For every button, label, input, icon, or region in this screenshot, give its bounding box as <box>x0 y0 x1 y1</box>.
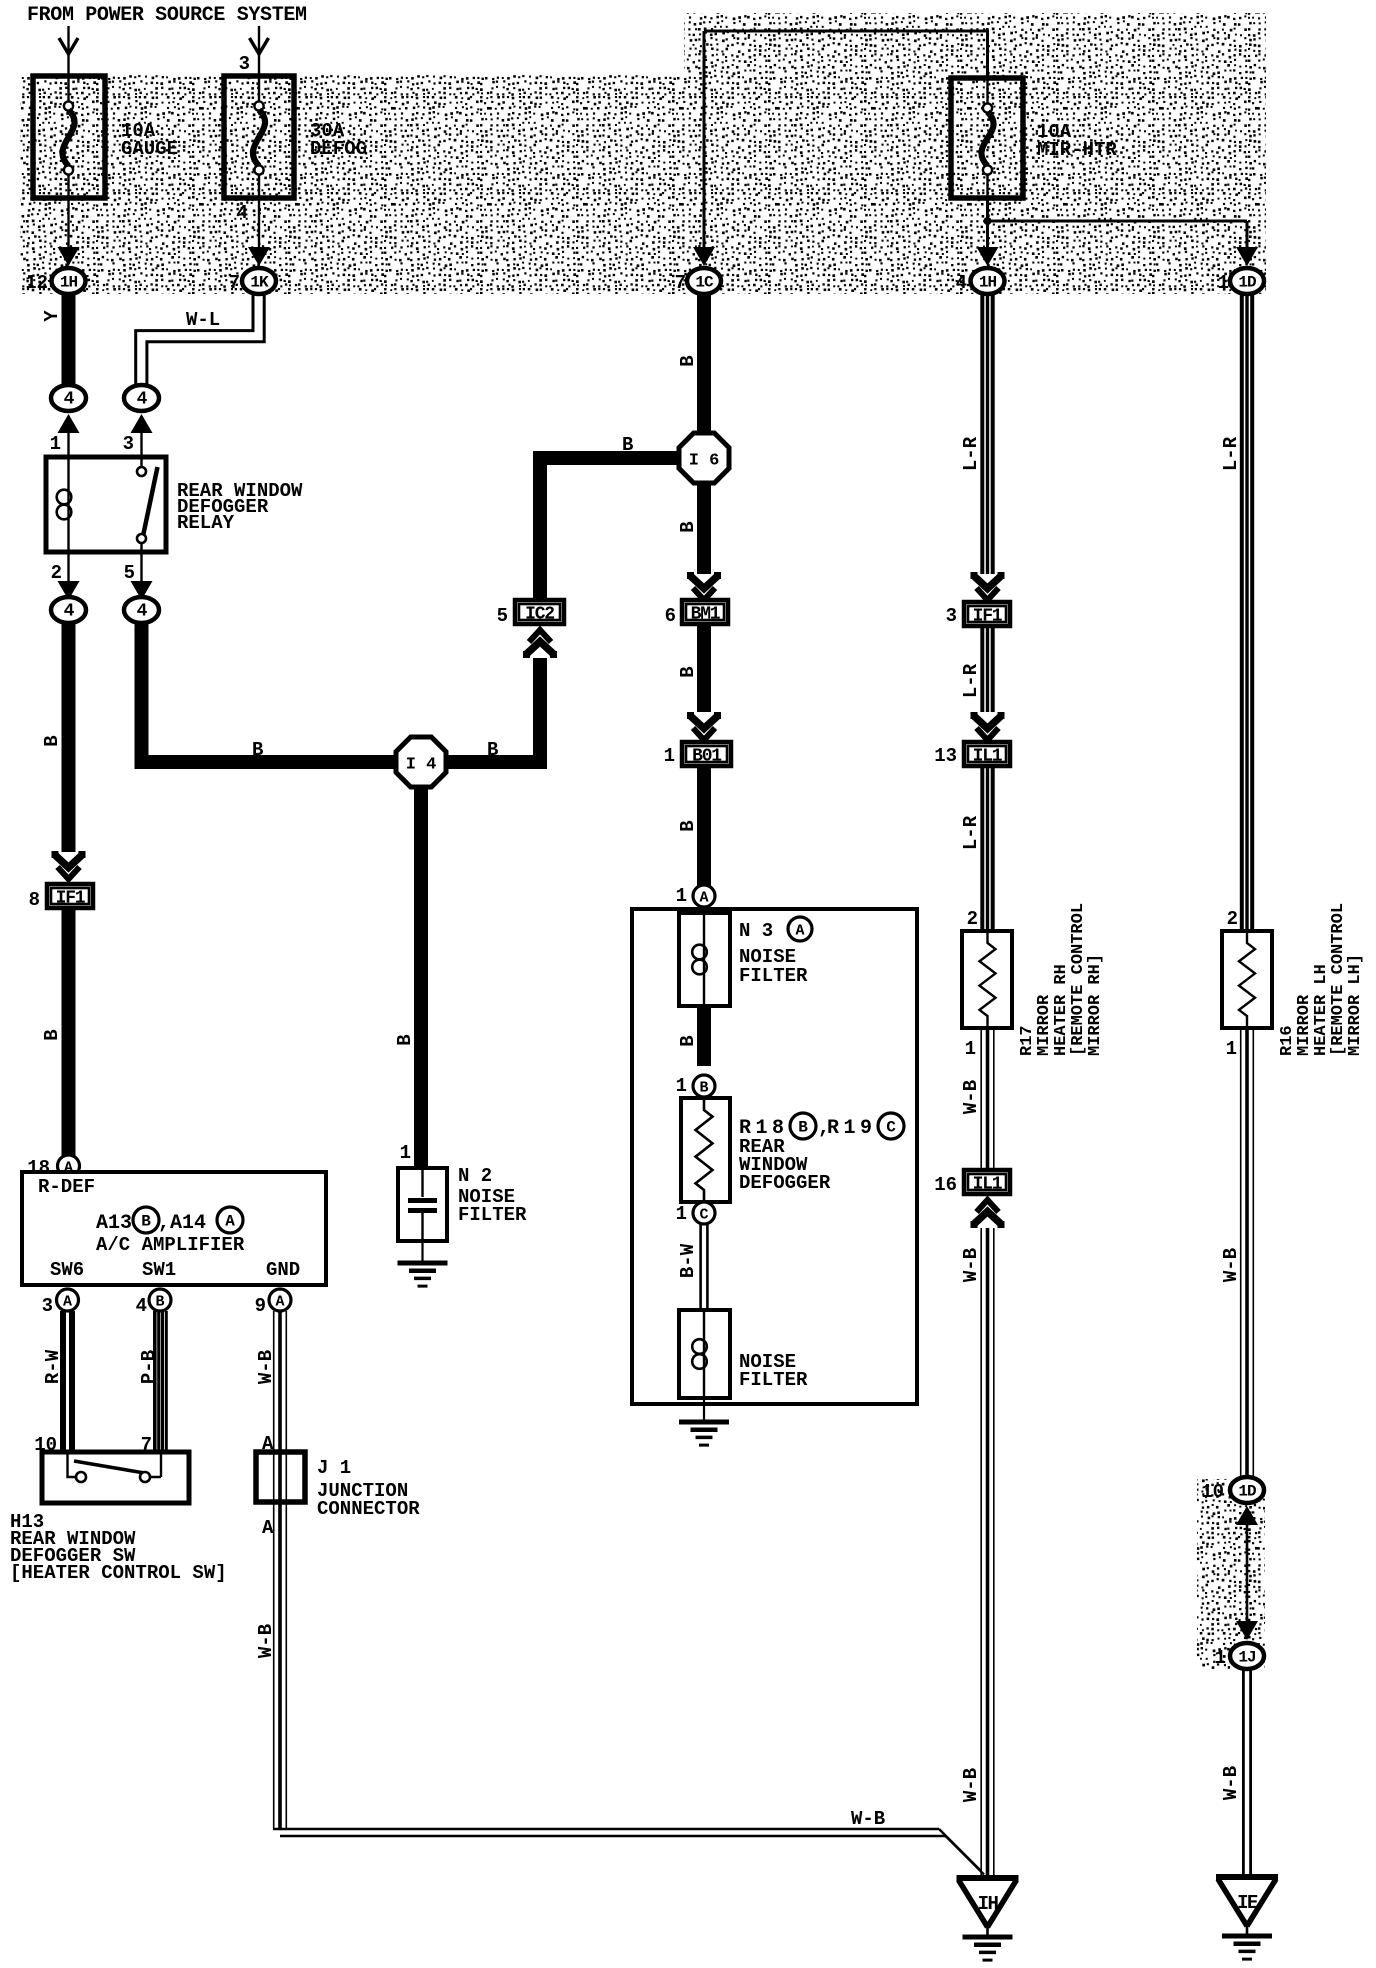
arrow into connector 1H right <box>977 247 999 266</box>
svg-text:1: 1 <box>1215 1647 1226 1669</box>
svg-text:12: 12 <box>25 272 48 294</box>
connector 7 (1K) <box>229 268 276 294</box>
svg-text:W-B: W-B <box>960 1080 982 1114</box>
arrow below 1D <box>1236 1506 1258 1525</box>
svg-text:B01: B01 <box>692 747 722 767</box>
label B <box>677 666 699 677</box>
wire L-R: connector 1H to connector IF1 <box>974 293 1001 600</box>
wire B: B01 to defogger terminal 1 (A) <box>697 768 711 886</box>
wire B: IC2 up and over to splice I6 <box>540 458 679 598</box>
pin 1 label (R16) <box>1226 1038 1237 1060</box>
svg-text:6: 6 <box>665 605 676 627</box>
svg-text:FROM POWER SOURCE SYSTEM: FROM POWER SOURCE SYSTEM <box>27 4 307 27</box>
svg-text:IC2: IC2 <box>525 605 554 625</box>
pin 3 label (fuse DEFOG top) <box>239 53 250 75</box>
svg-text:1J: 1J <box>1238 1649 1255 1667</box>
connector 12 (1H) <box>25 268 85 294</box>
relay label <box>177 480 303 534</box>
svg-text:RELAY: RELAY <box>177 512 235 534</box>
label A13 (B), A14 (A) <box>96 1207 243 1235</box>
svg-text:A: A <box>275 1294 284 1311</box>
fuse 10A GAUGE <box>33 76 178 198</box>
wire L-R: IL1 to mirror heater RH pin 2 <box>982 768 992 931</box>
svg-text:Y: Y <box>41 310 63 322</box>
wire W-L: connector 1K to junction (4) <box>136 295 265 386</box>
svg-text:1: 1 <box>965 1038 976 1060</box>
label W-B (bottom run) <box>255 1624 277 1658</box>
arrow into connector 1D <box>1236 247 1258 266</box>
svg-text:B: B <box>394 1034 416 1045</box>
wire W-B: R17 to connector IL1 (16) <box>981 1028 994 1168</box>
svg-text:1K: 1K <box>250 274 269 292</box>
noise filter N 2 (capacitor) <box>398 1168 447 1241</box>
svg-text:MIRROR LH]: MIRROR LH] <box>1346 954 1365 1056</box>
svg-text:BM1: BM1 <box>691 605 721 625</box>
label B <box>487 739 498 761</box>
label N 3 (A) NOISE FILTER <box>739 917 812 987</box>
svg-text:3: 3 <box>239 53 250 75</box>
svg-text:L-R: L-R <box>960 663 982 698</box>
pin 2 label (R16) <box>1227 908 1238 930</box>
svg-text:B: B <box>41 735 63 746</box>
label B-W <box>677 1243 699 1278</box>
label N 2 NOISE FILTER <box>458 1165 527 1226</box>
svg-text:1: 1 <box>400 1142 411 1164</box>
svg-text:SW6: SW6 <box>50 1259 84 1281</box>
label REAR WINDOW DEFOGGER <box>739 1136 831 1194</box>
svg-text:W-L: W-L <box>186 309 220 331</box>
junction connector (4) right <box>124 385 159 458</box>
svg-text:8: 8 <box>29 889 40 911</box>
svg-text:B: B <box>677 666 699 677</box>
rear window defogger resistor R18/R19 <box>681 1098 730 1202</box>
svg-text:B: B <box>622 434 633 456</box>
wire: fuse GAUGE to connector 1H (arrow) <box>58 198 80 266</box>
fuse 10A MIR-HTR <box>951 78 1117 198</box>
label R18 (B), R19 (C) <box>739 1113 904 1140</box>
arrow into connector 1C <box>693 247 715 266</box>
wire P-B: amplifier SW1 to defogger switch pin 7 <box>155 1311 167 1452</box>
svg-text:4: 4 <box>237 202 248 224</box>
pin 4 label (fuse DEFOG bottom) <box>237 202 248 224</box>
svg-text:2: 2 <box>51 562 62 584</box>
svg-text:IF1: IF1 <box>973 607 1003 627</box>
label J 1 JUNCTION CONNECTOR <box>317 1457 420 1520</box>
svg-text:5: 5 <box>124 562 135 584</box>
wire L-R: IF1 to IL1 <box>974 628 1001 740</box>
relay pin 3 label <box>123 433 134 455</box>
svg-text:R19: R19 <box>827 1117 877 1140</box>
label W-B (near ground) <box>960 1768 982 1802</box>
label P-B <box>138 1350 160 1384</box>
mirror heater LH R16 (resistor) <box>1222 931 1272 1028</box>
connector 10 (1D) lower <box>1201 1477 1264 1503</box>
pin 7 label <box>141 1434 152 1456</box>
junction connector (4) below relay right <box>124 597 159 623</box>
svg-text:1: 1 <box>50 433 61 455</box>
arrow into IF1 <box>55 851 82 879</box>
svg-text:MIRROR RH]: MIRROR RH] <box>1086 954 1105 1056</box>
svg-text:C: C <box>699 1207 708 1224</box>
label B <box>41 735 63 746</box>
connector 1 B01 <box>664 742 731 767</box>
wire B: IF1 to A/C amplifier pin 18 <box>62 910 76 1157</box>
svg-text:L-R: L-R <box>1220 436 1242 471</box>
svg-text:W-B: W-B <box>1220 1248 1242 1282</box>
ground IH <box>957 1878 1019 1960</box>
label W-B <box>255 1350 277 1384</box>
svg-text:A: A <box>795 923 804 940</box>
wire W-B: J1 to ground IH <box>274 1502 984 1875</box>
label B <box>677 1035 699 1046</box>
terminal 1 (C) <box>676 1202 715 1225</box>
wire: relay pin 5 to junction (4) <box>131 552 153 600</box>
splice I6 <box>679 433 729 483</box>
label L-R <box>960 815 982 850</box>
junction connector (4) left <box>51 385 86 458</box>
svg-text:1: 1 <box>664 745 675 767</box>
terminal 18 (A) of A/C amplifier <box>27 1155 79 1179</box>
wire from power source into fuse DEFOG (arrow) <box>250 26 269 76</box>
svg-text:1D: 1D <box>1238 274 1256 292</box>
svg-text:16: 16 <box>934 1174 957 1196</box>
svg-text:[HEATER CONTROL SW]: [HEATER CONTROL SW] <box>10 1562 227 1584</box>
label L-R <box>960 663 982 698</box>
svg-text:9: 9 <box>255 1295 266 1317</box>
relay pin 2 label <box>51 562 62 584</box>
svg-text:1: 1 <box>1218 272 1229 294</box>
wire Y: connector 1H to junction (4) <box>62 293 76 386</box>
connector 5 IC2 <box>497 600 564 627</box>
terminal 4 (B) <box>136 1289 171 1317</box>
svg-text:DEFOGGER: DEFOGGER <box>739 1172 831 1194</box>
svg-text:B: B <box>487 739 498 761</box>
label NOISE FILTER (bottom) <box>739 1351 808 1391</box>
terminal 9 (A) <box>255 1289 291 1317</box>
svg-text:1C: 1C <box>695 274 714 292</box>
label R-W <box>42 1349 64 1384</box>
relay pin 5 label <box>124 562 135 584</box>
pin 10 label <box>34 1434 57 1456</box>
connector 16 IL1 <box>934 1170 1010 1196</box>
terminal 1 (A) of noise filter N 3 <box>676 885 715 907</box>
label W-B <box>960 1248 982 1282</box>
svg-text:GAUGE: GAUGE <box>121 138 178 160</box>
label W-B <box>960 1080 982 1114</box>
arrow out of IL1 <box>974 1200 1001 1228</box>
wire B: I4 to noise filter N 2 <box>414 786 428 1168</box>
wire B: I6 to connector BM1 <box>691 483 718 600</box>
svg-text:L-R: L-R <box>960 436 982 471</box>
svg-text:R-DEF: R-DEF <box>38 1176 95 1198</box>
label A/C AMPLIFIER <box>96 1234 245 1256</box>
svg-text:J 1: J 1 <box>317 1457 351 1479</box>
wire R-W: amplifier SW6 to defogger switch pin 10 <box>63 1311 72 1452</box>
label R17 MIRROR HEATER RH <box>1018 903 1105 1056</box>
svg-text:5: 5 <box>497 605 508 627</box>
connector 1 (1D) <box>1218 268 1264 294</box>
label Y <box>41 310 63 322</box>
svg-text:DEFOG: DEFOG <box>310 138 367 160</box>
ground (below N 2) <box>398 1241 448 1286</box>
label A (J1 bottom) <box>262 1517 274 1539</box>
ground IE <box>1216 1877 1278 1959</box>
svg-text:B: B <box>252 739 263 761</box>
wire: fuse MIR-HTR to 1H and branch to 1D <box>984 198 1248 248</box>
svg-text:1H: 1H <box>60 274 78 292</box>
label B <box>677 820 699 831</box>
connector 7 (1C) <box>675 268 721 294</box>
svg-text:N 3: N 3 <box>739 920 773 942</box>
svg-text:B-W: B-W <box>677 1243 699 1278</box>
junction connector J1 box <box>256 1452 305 1502</box>
rear window defogger relay box <box>46 457 166 552</box>
svg-text:13: 13 <box>934 745 957 767</box>
svg-text:I 4: I 4 <box>406 756 437 775</box>
rear window defogger assembly box <box>632 909 917 1404</box>
noise filter N 3 (coil) <box>679 913 730 1006</box>
svg-text:FILTER: FILTER <box>739 1369 808 1391</box>
connector 1 (1J) <box>1215 1643 1264 1669</box>
wire L-R: connector 1D to mirror heater LH pin 2 <box>1242 293 1252 931</box>
junction connector (4) below relay left <box>51 597 86 623</box>
svg-text:W-B: W-B <box>960 1248 982 1282</box>
label R16 MIRROR HEATER LH <box>1278 903 1365 1056</box>
svg-text:7: 7 <box>229 272 240 294</box>
connector 6 BM1 <box>665 600 728 627</box>
pin 1 label (N 2) <box>400 1142 411 1164</box>
svg-text:A14: A14 <box>170 1212 206 1235</box>
svg-text:B: B <box>677 1035 699 1046</box>
svg-text:IL1: IL1 <box>973 1175 1003 1195</box>
ground (below defogger assembly) <box>679 1398 729 1445</box>
svg-text:FILTER: FILTER <box>458 1204 527 1226</box>
svg-text:3: 3 <box>946 605 957 627</box>
pin 1 label (R17) <box>965 1038 976 1060</box>
svg-text:N 2: N 2 <box>458 1165 492 1187</box>
connector 8 IF1 <box>29 884 93 911</box>
connector 13 IL1 <box>934 742 1010 767</box>
wire from power source into fuse GAUGE (arrow) <box>59 26 78 76</box>
wire B: relay pin5 junction to splice I4 <box>142 623 398 762</box>
label H13 / REAR WINDOW DEFOGGER SW <box>10 1511 227 1584</box>
label B <box>677 355 699 366</box>
svg-text:W-B: W-B <box>255 1350 277 1384</box>
svg-text:IE: IE <box>1237 1892 1258 1914</box>
svg-text:A: A <box>225 1213 235 1231</box>
svg-text:2: 2 <box>967 908 978 930</box>
label L-R <box>960 436 982 471</box>
label W-B (horizontal run) <box>851 1808 885 1830</box>
svg-text:4: 4 <box>136 1295 147 1317</box>
label W-B (LH bottom) <box>1220 1766 1242 1800</box>
wire W-B: R16 to connector 1D (10) <box>1241 1028 1254 1477</box>
svg-text:A: A <box>699 890 708 907</box>
power source shaded band <box>20 13 1266 294</box>
svg-text:IF1: IF1 <box>56 889 86 909</box>
pin 2 label (R17) <box>967 908 978 930</box>
label W-L <box>186 309 220 331</box>
svg-text:FILTER: FILTER <box>739 965 808 987</box>
wire B: BM1 to connector B01 <box>691 626 718 740</box>
svg-text:A13: A13 <box>96 1212 132 1235</box>
svg-text:GND: GND <box>266 1259 300 1281</box>
label A (J1 top) <box>262 1433 274 1455</box>
fuse 30A DEFOG <box>224 76 367 198</box>
svg-text:B: B <box>677 521 699 532</box>
svg-text:1: 1 <box>676 1203 687 1225</box>
noise filter (bottom coil) <box>679 1310 730 1398</box>
svg-text:R-W: R-W <box>42 1349 64 1384</box>
wire W-B: IL1 to ground IH <box>981 1228 994 1878</box>
svg-text:IH: IH <box>978 1893 999 1915</box>
wire W-B: 1J to ground IE <box>1243 1669 1250 1877</box>
terminal 3 (A) <box>42 1289 79 1317</box>
svg-text:,: , <box>158 1212 170 1235</box>
relay switch <box>137 457 158 552</box>
label GND <box>266 1259 300 1281</box>
svg-text:W-B: W-B <box>960 1768 982 1802</box>
svg-text:SW1: SW1 <box>142 1259 176 1281</box>
wire: relay pin 2 to junction (4) <box>58 552 80 600</box>
svg-text:W-B: W-B <box>1220 1766 1242 1800</box>
svg-text:CONNECTOR: CONNECTOR <box>317 1498 420 1520</box>
label B <box>622 434 633 456</box>
svg-text:B: B <box>798 1119 808 1137</box>
svg-text:P-B: P-B <box>138 1350 160 1384</box>
wire: 1D to 1J <box>1236 1524 1258 1640</box>
svg-text:4: 4 <box>137 390 148 410</box>
svg-text:B: B <box>677 355 699 366</box>
svg-text:2: 2 <box>1227 908 1238 930</box>
title: FROM POWER SOURCE SYSTEM <box>27 4 307 27</box>
svg-text:C: C <box>886 1119 896 1137</box>
svg-text:1: 1 <box>1226 1038 1237 1060</box>
svg-text:7: 7 <box>675 272 686 294</box>
wire W-B: amplifier GND to junction connector J1 <box>274 1311 287 1452</box>
svg-text:A/C AMPLIFIER: A/C AMPLIFIER <box>96 1234 245 1256</box>
svg-text:I 6: I 6 <box>689 452 720 471</box>
label L-R <box>1220 436 1242 471</box>
svg-text:3: 3 <box>123 433 134 455</box>
svg-text:1D: 1D <box>1238 1483 1256 1501</box>
svg-text:A: A <box>63 1294 72 1311</box>
svg-text:B: B <box>677 820 699 831</box>
A/C amplifier box <box>22 1172 326 1285</box>
svg-text:10: 10 <box>1201 1481 1224 1503</box>
wire B: N 3 to terminal 1 (B) <box>697 1006 711 1066</box>
terminal 1 (B) <box>676 1075 715 1097</box>
svg-text:IL1: IL1 <box>973 747 1003 767</box>
svg-text:W-B: W-B <box>255 1624 277 1658</box>
svg-text:1: 1 <box>676 1075 687 1097</box>
label B <box>394 1034 416 1045</box>
connector 3 IF1 (RH) <box>946 602 1010 627</box>
svg-text:B: B <box>155 1294 164 1311</box>
label SW1 <box>142 1259 176 1281</box>
wire B: connector 1C down to splice I6 <box>697 293 711 433</box>
svg-text:B: B <box>699 1080 708 1097</box>
label W-B <box>1220 1248 1242 1282</box>
svg-text:1H: 1H <box>979 274 997 292</box>
svg-text:B: B <box>41 1029 63 1040</box>
svg-text:4: 4 <box>64 390 75 410</box>
svg-text:4: 4 <box>64 602 75 622</box>
label SW6 <box>50 1259 84 1281</box>
wire B: I4 to connector IC2 <box>445 630 554 762</box>
relay coil <box>57 457 72 552</box>
label B <box>41 1029 63 1040</box>
mirror heater RH R17 (resistor) <box>962 931 1012 1028</box>
label B <box>252 739 263 761</box>
rear window defogger switch H13 box <box>42 1452 189 1503</box>
svg-text:MIR-HTR: MIR-HTR <box>1037 139 1117 161</box>
label R-DEF <box>38 1176 95 1198</box>
splice I4 <box>396 737 446 787</box>
svg-text:3: 3 <box>42 1295 53 1317</box>
connector 4 (1H) <box>956 268 1005 294</box>
relay pin 1 label <box>50 433 61 455</box>
wire: power feed to node 1C (top run) <box>704 30 988 249</box>
svg-text:B: B <box>141 1213 151 1231</box>
label B <box>677 521 699 532</box>
svg-text:L-R: L-R <box>960 815 982 850</box>
svg-text:1: 1 <box>676 885 687 907</box>
svg-text:W-B: W-B <box>851 1808 885 1830</box>
wire: fuse DEFOG to connector 1K (arrow) <box>248 198 270 266</box>
shaded patch at connectors 1D/1J (bottom right) <box>1197 1479 1265 1669</box>
svg-text:A: A <box>262 1517 274 1539</box>
wire B: relay pin2 junction to connector IF1 <box>62 623 76 852</box>
svg-text:4: 4 <box>956 272 967 294</box>
wire B-W: terminal C to noise filter <box>701 1224 708 1310</box>
svg-text:4: 4 <box>137 602 148 622</box>
